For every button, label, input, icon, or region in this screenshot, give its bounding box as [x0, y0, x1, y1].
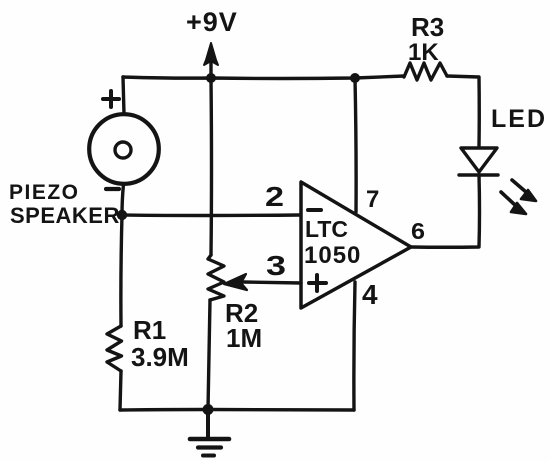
- svg-text:3.9M: 3.9M: [131, 342, 189, 372]
- LED D1: [459, 148, 498, 175]
- pin 2 label: [265, 181, 284, 212]
- wire R2 to ground rail: [208, 300, 210, 410]
- pin 7 label: [366, 186, 379, 213]
- pin 4 label: [362, 279, 378, 310]
- resistor R3: [404, 63, 447, 80]
- wire supply node down to R2 (crosses pin 2 wire): [209, 78, 213, 255]
- pin 7 wire: [355, 78, 356, 212]
- potentiometer R2: [208, 255, 301, 300]
- label R2 value 1M: [226, 323, 262, 353]
- svg-text:7: 7: [366, 186, 379, 213]
- svg-text:1K: 1K: [408, 39, 439, 66]
- ground symbol: [190, 410, 229, 456]
- svg-text:2: 2: [265, 181, 284, 212]
- wire R3 to LED anode: [447, 76, 479, 146]
- resistor R1: [107, 326, 122, 371]
- label LTC: [305, 216, 348, 242]
- wire speaker minus to node A: [122, 184, 124, 215]
- op-amp non-inverting input marker: [309, 275, 326, 291]
- node +9V label: [186, 7, 238, 37]
- svg-text:1050: 1050: [304, 242, 361, 269]
- svg-text:R3: R3: [411, 12, 444, 42]
- label R1: [133, 315, 166, 345]
- +9V supply arrow: [204, 43, 218, 78]
- svg-text:LED: LED: [491, 105, 547, 133]
- wire node A to pin 2 inverting input: [122, 213, 300, 217]
- op-amp U1 LTC1050: [301, 182, 411, 308]
- label 1050: [304, 242, 361, 269]
- wire LED cathode to op-amp output pin 6: [411, 175, 480, 247]
- label LED: [491, 105, 547, 133]
- label SPEAKER: [10, 203, 120, 228]
- svg-text:+9V: +9V: [186, 7, 238, 37]
- pin 4 wire: [354, 282, 355, 410]
- svg-text:3: 3: [266, 250, 286, 281]
- LED light emission arrows: [501, 180, 536, 214]
- svg-text:6: 6: [411, 218, 425, 244]
- label R3 value 1K: [408, 39, 439, 66]
- junction ground node: [203, 404, 214, 415]
- svg-text:1M: 1M: [226, 323, 262, 353]
- svg-text:PIEZO: PIEZO: [9, 181, 80, 204]
- piezo speaker SPK1: [89, 114, 159, 184]
- pin 3 label: [266, 250, 286, 281]
- svg-text:4: 4: [362, 279, 378, 310]
- speaker plus terminal marker: [103, 91, 119, 107]
- svg-text:SPEAKER: SPEAKER: [10, 203, 120, 228]
- node A junction: [117, 210, 127, 220]
- wire node A down to R1: [121, 215, 122, 326]
- wire R1 to ground rail: [120, 371, 121, 410]
- ground rail wire: [120, 408, 354, 412]
- svg-text:LTC: LTC: [305, 216, 348, 242]
- pin 6 label: [411, 218, 425, 244]
- junction supply node: [206, 73, 216, 83]
- speaker minus terminal marker: [106, 187, 119, 191]
- junction pin7 node: [350, 73, 360, 83]
- label PIEZO: [9, 181, 80, 204]
- wire speaker plus terminal to top rail: [123, 77, 124, 114]
- label R1 value 3.9M: [131, 342, 189, 372]
- svg-text:R1: R1: [133, 315, 166, 345]
- label R2: [225, 298, 258, 328]
- wire top rail: [123, 76, 404, 79]
- op-amp inverting input marker: [308, 208, 321, 212]
- label R3: [411, 12, 444, 42]
